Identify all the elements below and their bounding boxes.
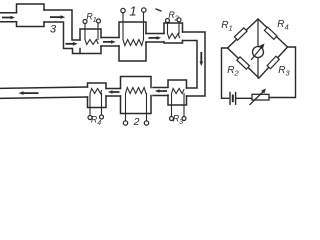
resistor R3 bridge arm [267,56,279,69]
svg-text:3: 3 [50,24,57,36]
wire duct chamber2 to R4 [106,89,121,97]
svg-text:R1: R1 [221,20,232,33]
svg-text:R3: R3 [278,65,290,78]
svg-text:R3: R3 [173,114,183,127]
wire outlet duct walls [0,87,88,98]
battery B [230,93,236,105]
resistor chamber R3 [168,80,187,126]
wire duct R2 to vertical down inner wall [183,41,198,89]
flow arrow into R1 [66,42,78,46]
wire rheostat to bridge right vertex [269,47,296,98]
wire duct R3 to chamber2 [153,88,168,96]
wire duct R2 to vertical down outer wall [183,32,206,96]
svg-text:R2: R2 [227,65,239,78]
wire duct chamber3 to R1 lower wall [44,22,80,54]
wire bridge left vertex to battery [222,48,229,98]
wire inlet duct walls [0,13,17,22]
resistor R1 bridge arm [234,28,247,40]
outlet flow arrow left [19,91,39,95]
bridge diamond wires [228,19,288,78]
flow arrow left [155,89,167,93]
flow arrow left [108,90,120,94]
resistor R2 bridge arm [237,57,250,69]
flow arrow [103,40,116,44]
svg-text:2: 2 [133,116,140,128]
inlet flow arrow [2,16,15,20]
flow arrow [149,36,162,40]
resistor chamber R4 [88,83,107,127]
chamber 2 [121,77,152,129]
flow arrow down [199,52,203,66]
wire duct chamber1 to R2 [146,34,164,43]
resistor chamber R2 [164,10,183,43]
wire battery to rheostat [237,97,253,99]
chamber 1 [119,4,146,62]
wire duct chamber3 to R1 upper wall [44,10,80,40]
flow arrow top duct [50,15,65,19]
galvanometer G [252,19,265,78]
resistor chamber R1 [80,12,101,54]
rheostat [250,89,269,105]
resistor R4 bridge arm [264,27,277,39]
svg-text:1: 1 [129,4,136,19]
wire duct R1 to chamber1 [101,38,119,47]
svg-text:R4: R4 [277,19,288,32]
stray mark [156,9,161,11]
svg-text:R1: R1 [86,12,96,25]
chamber 3 [17,4,45,27]
